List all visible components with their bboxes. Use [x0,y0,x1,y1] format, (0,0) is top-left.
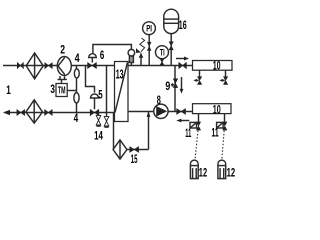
svg-text:8: 8 [157,95,161,107]
svg-text:12: 12 [227,167,236,179]
valve charging loop [127,149,149,151]
svg-text:14: 14 [94,131,103,143]
sensor temperature bulb secondary supply [130,63,132,66]
control valve 5 [90,109,99,115]
sensor 4 return temperature [74,93,79,103]
valve V1 supply isolation [17,63,23,69]
svg-text:2: 2 [60,44,65,56]
wire primary supply line [3,65,115,67]
capillary to bottle 12 b [222,131,224,160]
flow arrow secondary return [180,120,189,122]
valve V4 return isolation [45,110,53,116]
svg-text:13: 13 [116,68,124,82]
filter 15 charging loop [113,113,115,150]
drain valve 14 b [106,113,108,117]
node heat-meter sensor riser [76,66,78,113]
svg-text:4: 4 [75,53,80,65]
heater 10 lower [193,104,232,114]
gauge TI with valve [161,59,163,66]
svg-text:11: 11 [185,128,191,140]
pump 2 base [59,76,61,80]
svg-text:3: 3 [50,84,55,96]
svg-text:6: 6 [100,50,104,62]
valve V5 secondary supply [179,62,187,68]
svg-text:11: 11 [212,127,220,139]
flow arrow secondary supply [176,58,185,60]
sensor 4 supply temperature [74,69,79,78]
expansion vessel 16 [170,34,172,66]
heater 10 upper [193,61,233,71]
svg-text:9: 9 [165,81,170,93]
wire primary return line [5,112,115,114]
heat meter stub [61,80,63,84]
valve V2 supply isolation [45,63,52,69]
drain valve 14 a [98,113,100,116]
filter F2 strainer return [26,100,43,123]
svg-text:4: 4 [74,113,79,125]
heat exchanger 13 [115,62,129,122]
heat meter TM 3 [67,90,76,92]
wire secondary supply line [128,65,192,67]
node return arrow left [3,110,10,115]
capillary line valve 5 [86,66,95,93]
radiator valve 11 a [198,114,200,122]
wire bypass primary [106,66,108,113]
vent assembly upper box a [199,70,201,76]
capillary to bottle 12 a [195,131,198,160]
gauge PI with valve [148,35,150,66]
bypass valve 9 line [174,66,176,112]
svg-text:5: 5 [98,89,103,101]
control valve 6 [88,63,97,69]
radiator valve 11 b [224,114,226,122]
sensor bottle 12 b [218,160,226,168]
wire secondary return line [128,111,193,113]
wire charging riser [148,112,150,150]
flow arrow down bypass [181,77,183,90]
sensor bottle 12 a [190,160,198,168]
valve V3 return isolation [17,110,25,116]
pump 8 secondary circulation [154,104,168,118]
svg-text:12: 12 [199,167,207,179]
svg-text:10: 10 [213,61,221,73]
svg-text:10: 10 [213,104,221,116]
pump 2 primary circulation [57,57,71,76]
capillary line valve 6 [93,45,131,54]
svg-text:PI: PI [146,24,152,34]
filter F1 strainer supply [26,53,43,79]
svg-text:TI: TI [160,47,165,57]
svg-text:15: 15 [131,154,138,166]
tee mark at valve 9 [171,84,174,86]
svg-text:TM: TM [58,85,66,97]
svg-text:16: 16 [179,18,187,32]
svg-text:1: 1 [6,85,11,97]
safety valve 7 [140,53,142,65]
valve V6 secondary return [177,109,186,115]
vent assembly upper box b [225,70,227,76]
